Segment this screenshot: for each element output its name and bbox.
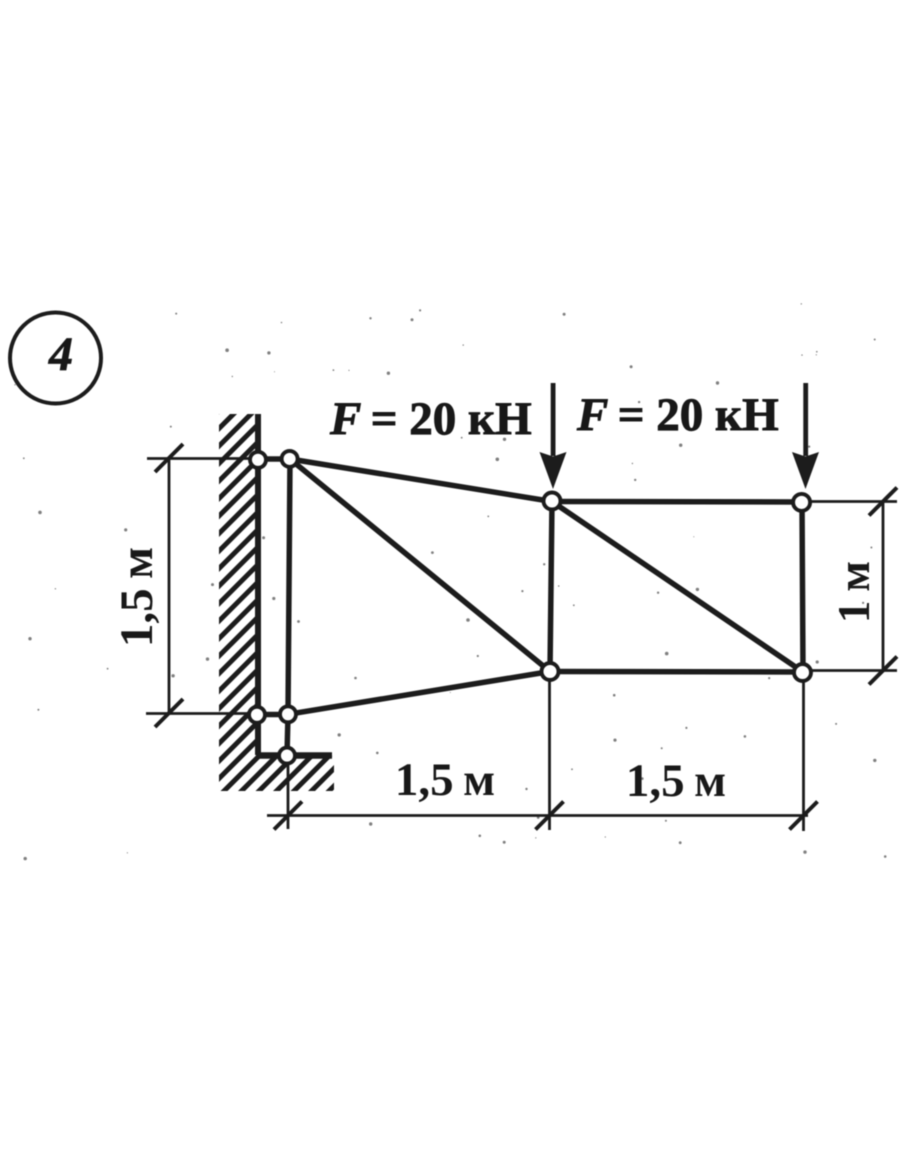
svg-text:1,5 м: 1,5 м [626, 755, 726, 807]
svg-text:F = 20 кН: F = 20 кН [329, 393, 532, 445]
svg-text:4: 4 [48, 328, 73, 381]
svg-text:1,5 м: 1,5 м [395, 754, 495, 806]
svg-text:1,5 м: 1,5 м [111, 547, 163, 647]
svg-text:1 м: 1 м [829, 561, 879, 623]
svg-text:F = 20 кН: F = 20 кН [576, 389, 779, 441]
